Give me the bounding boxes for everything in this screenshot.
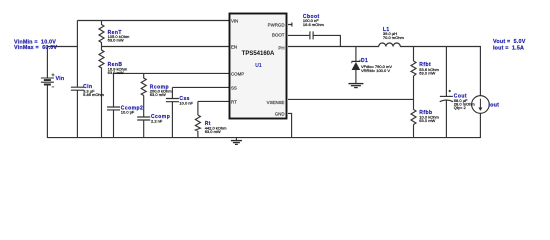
- svg-text:Iout = 1.5A: Iout = 1.5A: [493, 45, 524, 51]
- wire battery negative lead: [46, 85, 48, 138]
- wire Rcomp to Ccomp: [143, 96, 145, 117]
- svg-text:EN: EN: [231, 45, 237, 50]
- wire VIN top rail: [77, 20, 229, 22]
- svg-text:VIN: VIN: [231, 19, 238, 24]
- svg-text:Vout = 5.0V: Vout = 5.0V: [493, 39, 526, 45]
- resistor RenT: [99, 21, 104, 47]
- svg-text:63.0 mW: 63.0 mW: [108, 38, 124, 43]
- diode D1 schottky symbol: [352, 60, 361, 70]
- wire Cin to ground rail: [76, 90, 78, 138]
- svg-text:PH: PH: [278, 45, 284, 50]
- svg-text:16.6 mOhm: 16.6 mOhm: [303, 22, 325, 27]
- svg-text:63.0 mW: 63.0 mW: [419, 118, 435, 123]
- wire PH net: [288, 46, 379, 48]
- label Cin: [83, 84, 105, 97]
- wire Rfbb lower lead: [413, 125, 415, 139]
- svg-text:Iout: Iout: [489, 102, 500, 108]
- svg-text:BOOT: BOOT: [272, 33, 285, 38]
- wire COMP net: [114, 72, 230, 74]
- battery V1 Vin symbol: [41, 73, 55, 87]
- svg-text:VinMax = 60.0V: VinMax = 60.0V: [14, 45, 57, 51]
- wire Rt lower lead: [197, 131, 199, 138]
- capacitor Css plates: [166, 99, 179, 102]
- wire BOOT net: [288, 35, 340, 46]
- svg-text:10.0 nF: 10.0 nF: [179, 100, 193, 105]
- label Rcomp: [150, 85, 172, 98]
- capacitor Cboot plates: [310, 31, 313, 39]
- svg-text:10.0 pF: 10.0 pF: [121, 110, 135, 115]
- wire Rfbt lower lead / VSENSE node: [413, 76, 415, 110]
- wire Rt upper lead: [197, 101, 199, 115]
- resistor Rfbb: [411, 110, 416, 125]
- wire Rfbt upper lead: [413, 47, 415, 62]
- wire battery top horizontal: [47, 46, 77, 48]
- svg-text:63.0 mW: 63.0 mW: [108, 70, 124, 75]
- label Cboot: [303, 14, 325, 27]
- svg-text:5.46 mOhm: 5.46 mOhm: [83, 92, 105, 97]
- svg-text:VRRM= 100.0 V: VRRM= 100.0 V: [361, 68, 390, 73]
- label Ccomp: [151, 114, 170, 123]
- wire Css lower lead: [171, 102, 173, 138]
- wire RT net: [198, 100, 229, 102]
- label RenT: [108, 30, 130, 43]
- resistor Rfbt: [411, 61, 416, 76]
- wire output rail: [400, 47, 480, 96]
- label Rfbb: [419, 110, 439, 123]
- svg-text:70.0 mOhm: 70.0 mOhm: [383, 35, 405, 40]
- label L1: [383, 27, 405, 40]
- wire Cout lower lead: [445, 101, 447, 139]
- wire Ccomp lower lead: [143, 120, 145, 138]
- svg-text:GND: GND: [275, 112, 285, 117]
- wire Ccomp2 lower lead: [113, 110, 115, 138]
- svg-text:RT: RT: [231, 100, 237, 105]
- resistor RenB: [99, 47, 104, 139]
- svg-text:VSENSE: VSENSE: [267, 100, 285, 105]
- label Ccomp2: [121, 105, 143, 114]
- svg-text:Qty= 2: Qty= 2: [454, 105, 467, 110]
- wire PWRGD stub: [288, 23, 292, 27]
- wire Css upper lead: [171, 87, 173, 98]
- svg-text:2.2 nF: 2.2 nF: [151, 118, 163, 123]
- wire D1 anode lead: [355, 70, 357, 83]
- svg-text:U1: U1: [255, 63, 262, 69]
- inductor L1: [379, 43, 401, 47]
- label Rt: [205, 121, 227, 134]
- capacitor Cout plates (polarized): [440, 95, 453, 97]
- wire EN net: [102, 46, 230, 48]
- wire SS net: [172, 86, 229, 88]
- label Rfbt: [419, 62, 439, 75]
- capacitor Ccomp2 plates: [107, 107, 120, 110]
- svg-text:SS: SS: [231, 85, 237, 90]
- label Cout: [454, 93, 476, 110]
- svg-text:Vin: Vin: [56, 76, 65, 82]
- wire GND pin to rail: [288, 113, 292, 138]
- resistor Rt: [195, 115, 200, 131]
- resistor Rcomp: [141, 73, 146, 95]
- svg-text:COMP: COMP: [231, 71, 244, 76]
- capacitor Ccomp plates: [137, 117, 150, 120]
- label Css: [179, 96, 193, 105]
- wire Cout upper lead: [445, 47, 447, 97]
- wire VIN vertical to Cin: [76, 21, 78, 88]
- svg-text:63.0 mW: 63.0 mW: [205, 129, 221, 134]
- wire Ccomp2 upper lead: [113, 73, 115, 107]
- svg-text:PWRGD: PWRGD: [268, 23, 285, 28]
- svg-text:63.0 mW: 63.0 mW: [150, 92, 166, 97]
- wire VSENSE net: [288, 98, 414, 100]
- svg-text:TPS54160A: TPS54160A: [242, 51, 275, 57]
- current source Iout symbol: [472, 96, 490, 114]
- ground symbol on bottom rail: [231, 138, 242, 145]
- ground symbol at D1 anode: [348, 84, 363, 88]
- label RenB: [108, 62, 128, 75]
- wire D1 cathode lead: [355, 47, 357, 62]
- IC U1 TPS54160A body: [230, 14, 287, 119]
- svg-text:63.0 mW: 63.0 mW: [419, 70, 435, 75]
- capacitor Cin plates: [71, 87, 84, 90]
- wire Iout to ground rail: [479, 113, 481, 138]
- label D1: [361, 58, 392, 73]
- wire battery positive lead: [46, 47, 48, 79]
- wire ground rail: [47, 137, 480, 139]
- polarity mark on Cout: [449, 90, 451, 92]
